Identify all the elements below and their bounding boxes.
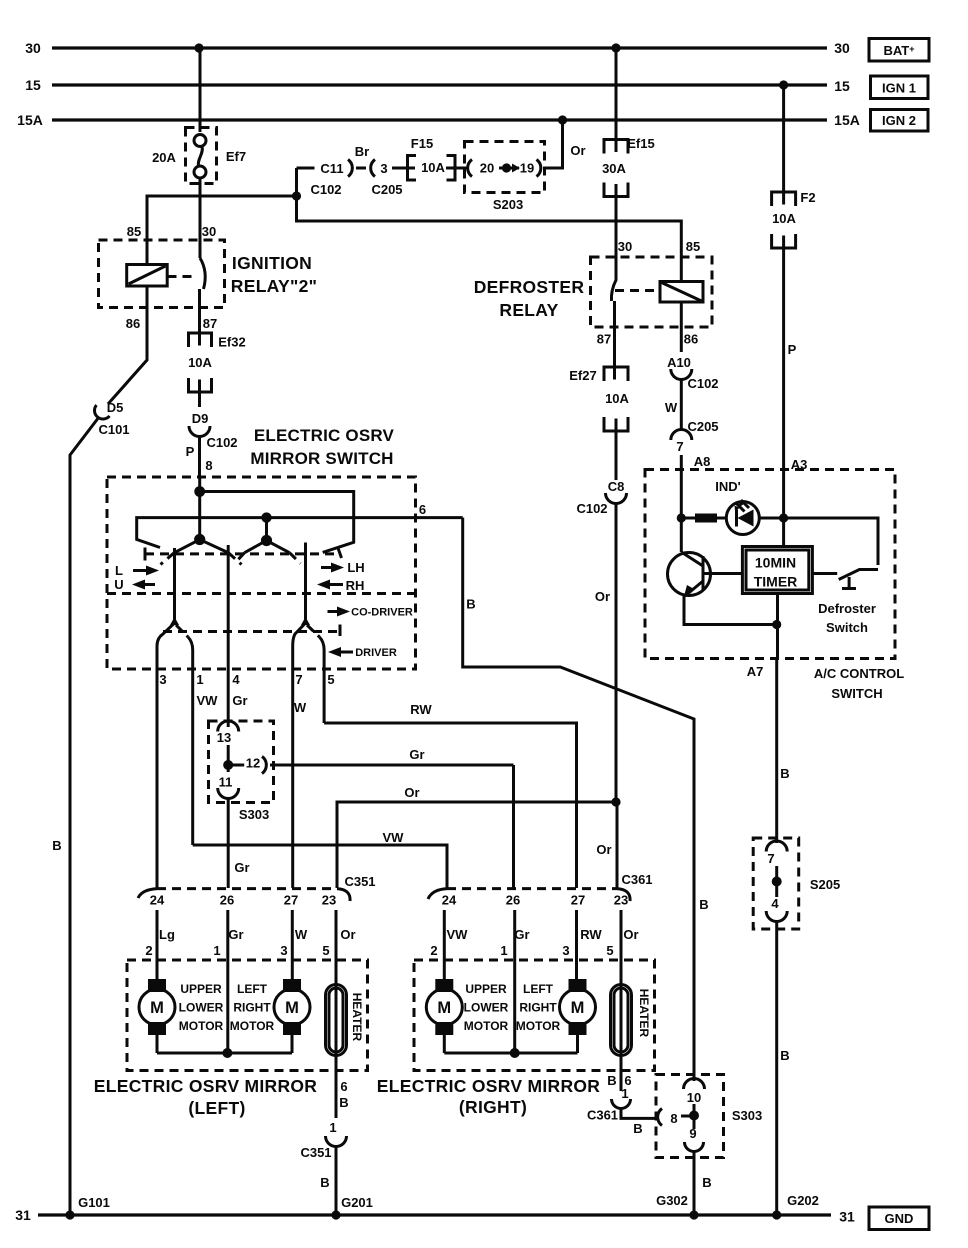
svg-text:C205: C205	[687, 419, 718, 434]
svg-text:3: 3	[159, 672, 166, 687]
svg-text:4: 4	[771, 896, 779, 911]
svg-text:Or: Or	[596, 842, 611, 857]
svg-text:M: M	[150, 999, 164, 1017]
svg-text:15: 15	[25, 77, 41, 93]
svg-text:15: 15	[834, 78, 850, 94]
svg-text:(LEFT): (LEFT)	[188, 1098, 245, 1118]
svg-text:LEFT: LEFT	[523, 982, 554, 996]
svg-text:MIRROR SWITCH: MIRROR SWITCH	[250, 449, 393, 468]
svg-text:S203: S203	[493, 197, 523, 212]
svg-text:10MIN: 10MIN	[755, 555, 796, 571]
svg-text:1: 1	[329, 1120, 336, 1135]
svg-text:Ef32: Ef32	[218, 335, 245, 350]
svg-text:Ef27: Ef27	[569, 368, 596, 383]
svg-text:31: 31	[15, 1207, 31, 1223]
svg-text:3: 3	[280, 943, 287, 958]
svg-text:VW: VW	[197, 693, 219, 708]
svg-text:30: 30	[834, 40, 850, 56]
svg-text:86: 86	[126, 316, 140, 331]
svg-text:10A: 10A	[421, 160, 445, 175]
svg-text:8: 8	[670, 1111, 677, 1126]
svg-text:B: B	[780, 766, 789, 781]
svg-text:D9: D9	[192, 411, 209, 426]
svg-text:6: 6	[419, 502, 426, 517]
svg-text:C361: C361	[621, 872, 652, 887]
svg-text:19: 19	[520, 161, 534, 176]
svg-text:W: W	[294, 700, 307, 715]
svg-text:G302: G302	[656, 1193, 688, 1208]
svg-text:C11: C11	[320, 161, 343, 176]
svg-text:B: B	[466, 597, 475, 612]
svg-text:Or: Or	[595, 589, 610, 604]
svg-text:MOTOR: MOTOR	[516, 1019, 561, 1033]
svg-text:7: 7	[767, 851, 774, 866]
svg-text:IGN 1: IGN 1	[882, 81, 916, 96]
svg-text:F2: F2	[800, 190, 815, 205]
svg-text:2: 2	[430, 943, 437, 958]
svg-text:TIMER: TIMER	[754, 574, 798, 590]
svg-text:4: 4	[232, 672, 240, 687]
svg-text:85: 85	[127, 224, 141, 239]
svg-text:10A: 10A	[772, 211, 796, 226]
svg-text:6: 6	[340, 1079, 347, 1094]
svg-text:MOTOR: MOTOR	[230, 1019, 275, 1033]
svg-text:M: M	[437, 999, 451, 1017]
svg-text:26: 26	[220, 893, 234, 908]
svg-text:24: 24	[442, 893, 457, 908]
svg-text:W: W	[295, 927, 308, 942]
svg-text:G202: G202	[787, 1193, 819, 1208]
svg-text:LH: LH	[347, 560, 364, 575]
svg-text:11: 11	[219, 775, 233, 790]
svg-text:27: 27	[571, 893, 585, 908]
svg-text:RELAY: RELAY	[499, 300, 558, 320]
svg-text:MOTOR: MOTOR	[464, 1019, 509, 1033]
svg-text:1: 1	[196, 672, 203, 687]
svg-text:C361: C361	[587, 1108, 618, 1123]
svg-text:Or: Or	[404, 785, 419, 800]
svg-text:87: 87	[597, 332, 611, 347]
svg-text:30: 30	[202, 224, 216, 239]
svg-text:Gr: Gr	[232, 693, 247, 708]
svg-text:W: W	[665, 400, 678, 415]
svg-text:10A: 10A	[605, 391, 629, 406]
svg-text:G101: G101	[78, 1195, 110, 1210]
svg-text:VW: VW	[447, 927, 469, 942]
svg-text:A10: A10	[667, 355, 691, 370]
svg-text:20A: 20A	[152, 150, 176, 165]
svg-text:C8: C8	[608, 479, 625, 494]
svg-text:L: L	[115, 563, 123, 578]
svg-text:26: 26	[506, 893, 520, 908]
svg-text:Br: Br	[355, 144, 369, 159]
svg-text:C102: C102	[206, 435, 237, 450]
svg-text:B: B	[702, 1175, 711, 1190]
svg-text:C102: C102	[687, 376, 718, 391]
svg-text:S303: S303	[732, 1108, 762, 1123]
svg-text:23: 23	[614, 893, 628, 908]
svg-text:Or: Or	[570, 143, 585, 158]
svg-text:10: 10	[687, 1090, 701, 1105]
svg-text:B: B	[633, 1121, 642, 1136]
svg-text:7: 7	[676, 439, 683, 454]
svg-text:2: 2	[145, 943, 152, 958]
svg-text:Ef7: Ef7	[226, 149, 246, 164]
svg-text:D5: D5	[107, 400, 124, 415]
svg-text:B: B	[699, 897, 708, 912]
svg-text:LEFT: LEFT	[237, 982, 268, 996]
svg-text:B: B	[607, 1073, 616, 1088]
svg-text:3: 3	[380, 161, 387, 176]
svg-text:S303: S303	[239, 807, 269, 822]
svg-text:IND': IND'	[715, 479, 740, 494]
svg-text:LOWER: LOWER	[179, 1001, 224, 1015]
svg-text:9: 9	[689, 1126, 696, 1141]
svg-text:LOWER: LOWER	[464, 1001, 509, 1015]
svg-text:B: B	[320, 1175, 329, 1190]
svg-text:13: 13	[217, 730, 231, 745]
svg-text:27: 27	[284, 893, 298, 908]
svg-text:A8: A8	[694, 454, 711, 469]
svg-text:IGN 2: IGN 2	[882, 113, 916, 128]
svg-text:A/C CONTROL: A/C CONTROL	[814, 666, 904, 681]
svg-text:20: 20	[480, 161, 494, 176]
svg-text:Defroster: Defroster	[818, 601, 876, 616]
svg-text:15A: 15A	[834, 112, 860, 128]
svg-text:C351: C351	[300, 1145, 331, 1160]
svg-text:5: 5	[322, 943, 329, 958]
svg-text:85: 85	[686, 239, 700, 254]
svg-text:B: B	[52, 838, 61, 853]
svg-text:RW: RW	[580, 927, 602, 942]
svg-text:24: 24	[150, 893, 165, 908]
svg-text:RW: RW	[410, 702, 432, 717]
svg-text:87: 87	[203, 316, 217, 331]
svg-text:5: 5	[327, 672, 334, 687]
svg-text:MOTOR: MOTOR	[179, 1019, 224, 1033]
svg-text:M: M	[285, 999, 299, 1017]
svg-text:SWITCH: SWITCH	[831, 686, 882, 701]
svg-text:RIGHT: RIGHT	[519, 1001, 557, 1015]
svg-text:ELECTRIC OSRV: ELECTRIC OSRV	[254, 426, 395, 445]
svg-text:ELECTRIC OSRV MIRROR: ELECTRIC OSRV MIRROR	[377, 1076, 601, 1096]
svg-text:23: 23	[322, 893, 336, 908]
svg-text:Or: Or	[623, 927, 638, 942]
svg-text:Gr: Gr	[228, 927, 243, 942]
svg-text:Ef15: Ef15	[627, 136, 654, 151]
svg-text:Gr: Gr	[409, 747, 424, 762]
svg-text:DEFROSTER: DEFROSTER	[474, 277, 585, 297]
svg-text:DRIVER: DRIVER	[355, 647, 397, 659]
svg-text:HEATER: HEATER	[637, 989, 651, 1038]
svg-text:C205: C205	[371, 182, 402, 197]
svg-text:Or: Or	[340, 927, 355, 942]
svg-text:86: 86	[684, 332, 698, 347]
svg-text:C102: C102	[310, 182, 341, 197]
svg-text:10A: 10A	[188, 355, 212, 370]
svg-text:1: 1	[621, 1086, 628, 1101]
svg-text:VW: VW	[383, 830, 405, 845]
svg-text:RIGHT: RIGHT	[233, 1001, 271, 1015]
svg-text:UPPER: UPPER	[465, 982, 507, 996]
svg-text:ELECTRIC OSRV MIRROR: ELECTRIC OSRV MIRROR	[94, 1076, 318, 1096]
svg-text:A7: A7	[747, 664, 764, 679]
svg-text:30: 30	[25, 40, 41, 56]
svg-text:Switch: Switch	[826, 620, 868, 635]
svg-text:C351: C351	[344, 874, 375, 889]
svg-text:GND: GND	[885, 1211, 914, 1226]
svg-text:30: 30	[618, 239, 632, 254]
svg-text:Gr: Gr	[234, 860, 249, 875]
svg-text:15A: 15A	[17, 112, 43, 128]
svg-text:C101: C101	[98, 422, 129, 437]
svg-text:HEATER: HEATER	[350, 993, 364, 1042]
svg-text:1: 1	[500, 943, 507, 958]
svg-text:30A: 30A	[602, 161, 626, 176]
svg-text:UPPER: UPPER	[180, 982, 222, 996]
svg-text:S205: S205	[810, 877, 840, 892]
svg-text:5: 5	[606, 943, 613, 958]
svg-text:Lg: Lg	[159, 927, 175, 942]
svg-text:P: P	[186, 444, 195, 459]
svg-text:31: 31	[839, 1209, 855, 1225]
svg-text:CO-DRIVER: CO-DRIVER	[351, 607, 413, 619]
svg-text:3: 3	[562, 943, 569, 958]
svg-text:(RIGHT): (RIGHT)	[459, 1097, 527, 1117]
svg-text:G201: G201	[341, 1195, 373, 1210]
svg-text:F15: F15	[411, 136, 433, 151]
svg-text:M: M	[571, 999, 585, 1017]
svg-text:B: B	[339, 1095, 348, 1110]
svg-text:7: 7	[295, 672, 302, 687]
svg-text:8: 8	[205, 458, 212, 473]
svg-text:RH: RH	[346, 578, 365, 593]
svg-text:U: U	[114, 577, 123, 592]
svg-text:Gr: Gr	[514, 927, 529, 942]
svg-text:12: 12	[246, 756, 260, 771]
svg-text:1: 1	[213, 943, 220, 958]
svg-text:C102: C102	[576, 501, 607, 516]
svg-text:B: B	[780, 1048, 789, 1063]
svg-text:IGNITION: IGNITION	[232, 253, 312, 273]
svg-text:RELAY"2": RELAY"2"	[231, 276, 317, 296]
svg-text:P: P	[788, 342, 797, 357]
